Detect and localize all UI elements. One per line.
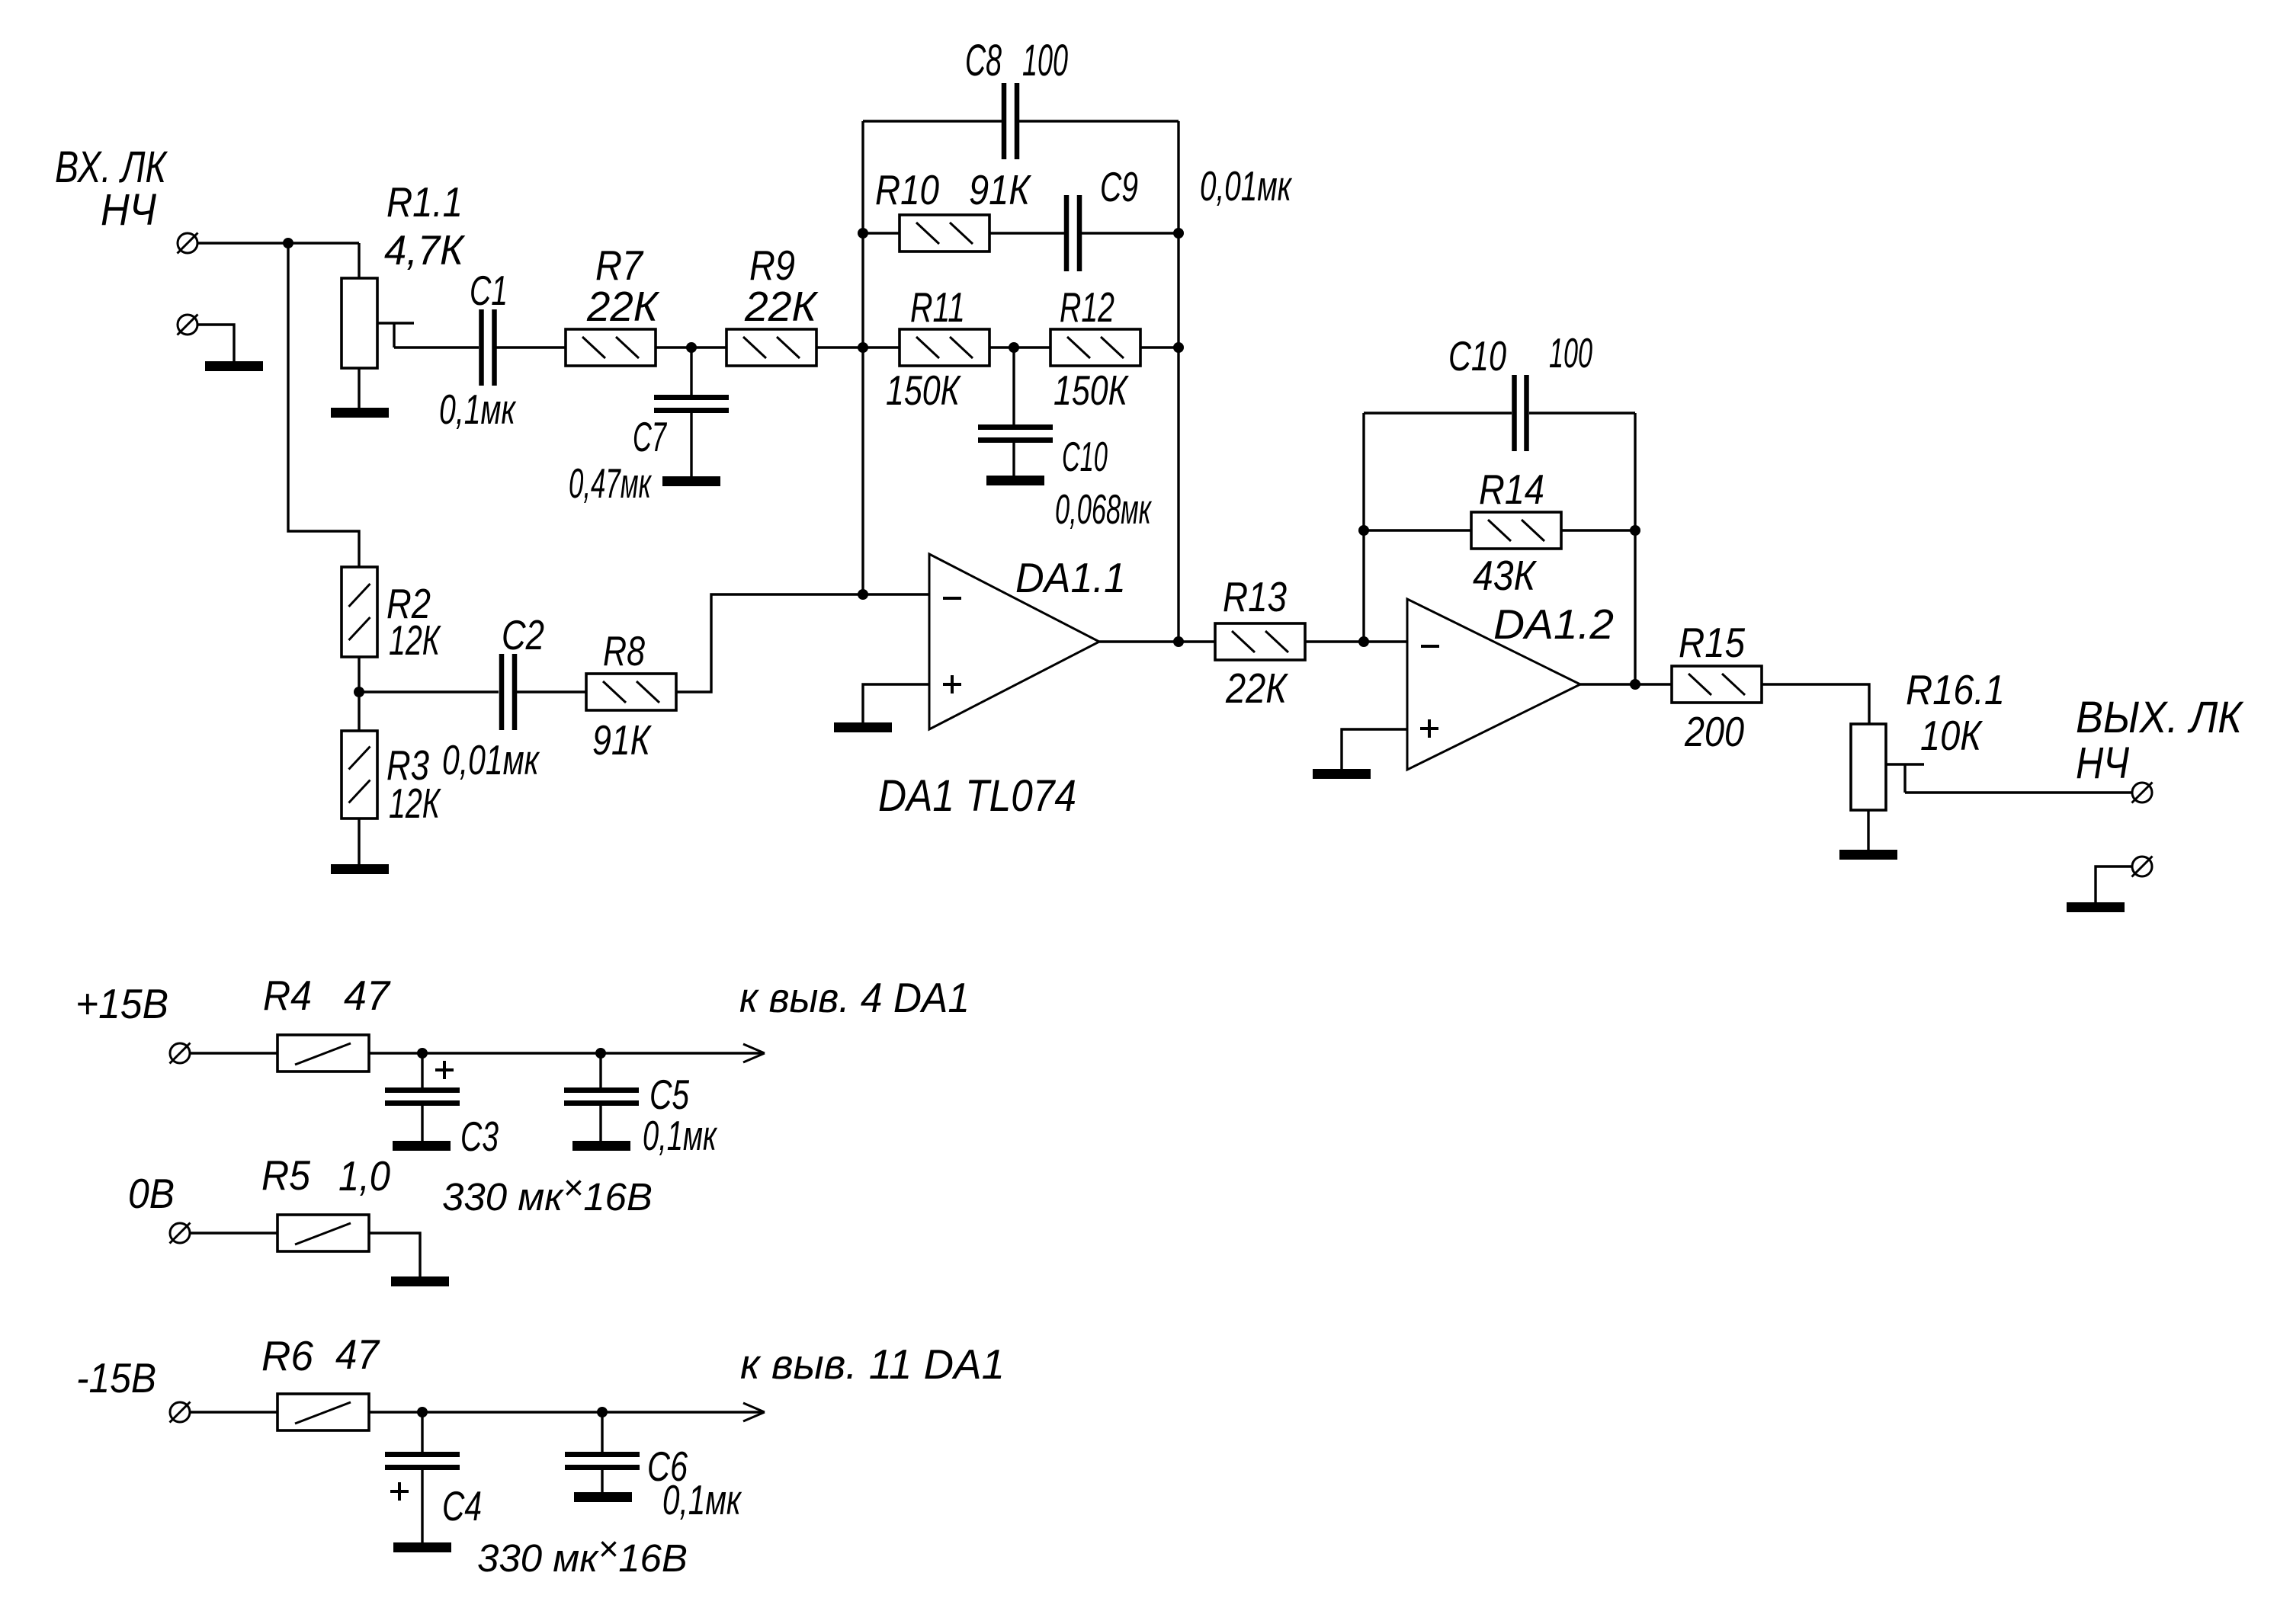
wire wiper to C1 — [394, 346, 479, 348]
svg-text:R6: R6 — [261, 1332, 313, 1379]
ground (C6) — [574, 1492, 632, 1502]
node DA1.2 inverting — [1358, 636, 1369, 647]
minus sign DA1.2 — [1421, 645, 1439, 648]
svg-text:0,01мк: 0,01мк — [442, 736, 540, 783]
svg-text:R10: R10 — [875, 166, 939, 213]
resistor R7 — [566, 329, 656, 366]
wire R15 to R16.1 — [1762, 684, 1869, 724]
resistor R13 — [1215, 623, 1305, 660]
wire to R14 — [1364, 529, 1471, 531]
ground (R16.1) — [1839, 850, 1897, 860]
capacitor C8 — [1004, 83, 1017, 159]
svg-text:C5: C5 — [649, 1071, 689, 1118]
wire down to C4 — [421, 1412, 423, 1452]
terminal +15V — [170, 1043, 191, 1064]
svg-text:0,1мк: 0,1мк — [662, 1476, 742, 1523]
node C7 tap — [686, 342, 697, 353]
wire down to C6 — [601, 1412, 603, 1452]
wire left feedback column — [861, 121, 864, 594]
wire R16.1 bottom — [1867, 810, 1869, 850]
wire node to C2 — [359, 690, 499, 693]
potentiometer R16.1 — [1851, 724, 1886, 810]
svg-text:0,1мк: 0,1мк — [643, 1112, 717, 1159]
wire wiper drop (R16.1) — [1903, 764, 1906, 793]
input terminal XS1 — [178, 233, 198, 254]
wire left column to R10 — [863, 232, 900, 234]
ground (R5) — [391, 1276, 449, 1286]
capacitor C10 (filter) — [978, 428, 1053, 440]
ground (input) — [205, 361, 263, 371]
svg-text:DA1.1: DA1.1 — [1015, 554, 1126, 601]
plus sign DA1.1 — [943, 675, 961, 693]
svg-text:0,47мк: 0,47мк — [569, 460, 652, 507]
ground (C7) — [662, 476, 720, 486]
wire DA1.1 noninverting to ground — [863, 684, 929, 722]
svg-text:R7: R7 — [595, 242, 644, 289]
node C4 tap — [417, 1407, 428, 1417]
svg-text:0В: 0В — [128, 1170, 175, 1217]
svg-text:R11: R11 — [910, 283, 965, 331]
wire feedback rail left — [1364, 412, 1512, 414]
node divider — [354, 687, 364, 697]
wire right feedback column — [1177, 121, 1179, 642]
ground (R3) — [331, 864, 389, 874]
wire C3 to ground — [421, 1106, 423, 1141]
wire R6 to arrow — [369, 1411, 763, 1413]
svg-text:C7: C7 — [633, 413, 668, 460]
output terminal — [2132, 783, 2153, 803]
capacitor C3 — [385, 1091, 460, 1103]
wire feedback left vertical — [1362, 413, 1365, 642]
resistor R12 — [1050, 329, 1140, 366]
node C9 right — [1173, 228, 1184, 239]
svg-text:C2: C2 — [502, 611, 544, 658]
node B (right feedback column) — [1173, 342, 1184, 353]
resistor R15 — [1672, 666, 1762, 703]
capacitor C9 — [1066, 195, 1079, 271]
output ground terminal — [2132, 857, 2153, 877]
node C5 tap — [595, 1048, 606, 1059]
ground (C5) — [572, 1141, 630, 1151]
wire to output terminal — [1905, 791, 2132, 793]
wire output ground — [2096, 866, 2132, 902]
wire C10 to ground — [1012, 443, 1015, 476]
capacitor C2 — [502, 654, 515, 730]
wire down to C10 — [1012, 348, 1015, 424]
plus sign DA1.2 — [1420, 719, 1438, 738]
svg-text:150К: 150К — [886, 367, 961, 414]
wire R1.1 bottom lead — [358, 368, 360, 408]
svg-text:C10: C10 — [1062, 433, 1108, 480]
svg-text:С8: С8 — [965, 36, 1002, 85]
node A (left feedback column) — [858, 342, 868, 353]
wire node to R3 — [358, 692, 360, 731]
capacitor C5 — [564, 1091, 639, 1103]
input ground terminal — [178, 315, 198, 335]
op-amp DA1.2 — [1407, 599, 1580, 770]
wire terminal2 to ground — [197, 325, 234, 361]
svg-text:R8: R8 — [603, 627, 645, 674]
wire C5 to ground — [599, 1106, 601, 1141]
capacitor C10 (feedback) — [1515, 375, 1527, 451]
node C3 tap — [417, 1048, 428, 1059]
wire R13 to DA1.2 — [1305, 640, 1407, 642]
plus sign C3 — [435, 1061, 454, 1079]
svg-text:R1.1: R1.1 — [386, 178, 463, 226]
wire R5 to ground — [369, 1233, 420, 1276]
svg-text:43К: 43К — [1473, 552, 1537, 599]
svg-text:C10: C10 — [1448, 332, 1506, 380]
svg-text:22К: 22К — [744, 283, 819, 330]
svg-text:22К: 22К — [586, 283, 660, 330]
resistor R2 — [342, 567, 377, 657]
terminal 0V — [170, 1223, 191, 1244]
wire feedback right vertical — [1634, 413, 1636, 684]
svg-text:R5: R5 — [261, 1152, 310, 1199]
node C6 tap — [597, 1407, 608, 1417]
wire C9 to right column — [1082, 232, 1179, 234]
wire feedback rail right — [1529, 412, 1635, 414]
capacitor C4 — [385, 1455, 460, 1468]
svg-text:C1: C1 — [470, 267, 508, 314]
resistor R11 — [900, 329, 989, 366]
wire input to junction — [197, 242, 288, 244]
wire C2 to R8 — [517, 690, 586, 693]
svg-text:C4: C4 — [442, 1482, 482, 1530]
wire C4 to ground — [421, 1470, 423, 1542]
svg-text:1,0: 1,0 — [338, 1152, 390, 1200]
wire input junction down-jog to R2 — [288, 243, 359, 567]
svg-text:ВЫХ. ЛК: ВЫХ. ЛК — [2076, 693, 2244, 742]
node input junction — [283, 238, 293, 248]
resistor R8 — [586, 674, 676, 710]
wire R4 to arrow — [369, 1052, 763, 1054]
wire +15V to R4 — [190, 1052, 277, 1054]
resistor R10 — [900, 215, 989, 251]
svg-text:R13: R13 — [1223, 573, 1287, 620]
svg-text:R14: R14 — [1479, 466, 1544, 513]
wire down to C3 — [421, 1053, 423, 1087]
wire DA1.1 output — [1099, 640, 1215, 642]
ground (output) — [2067, 902, 2125, 912]
resistor R3 — [342, 731, 377, 818]
svg-text:150К: 150К — [1054, 367, 1129, 414]
svg-text:0,068мк: 0,068мк — [1055, 485, 1152, 533]
wire junction to R1.1 corner — [288, 242, 359, 244]
wire -15V to R6 — [190, 1411, 277, 1413]
wire down to R1.1 top — [358, 243, 360, 278]
wire C7 to ground — [690, 413, 692, 476]
svg-text:R4: R4 — [263, 972, 312, 1019]
wire R2 to node — [358, 657, 360, 692]
svg-text:+15В: +15В — [75, 980, 168, 1027]
svg-text:0,01мк: 0,01мк — [1200, 162, 1292, 210]
svg-text:R9: R9 — [749, 242, 795, 289]
svg-text:330 мк×16В: 330 мк×16В — [477, 1529, 688, 1580]
node R14 right — [1630, 525, 1640, 536]
wire R16.1 wiper — [1886, 763, 1924, 765]
svg-text:47: 47 — [344, 972, 391, 1019]
svg-text:12К: 12К — [389, 617, 441, 664]
wire R10 to C9 — [989, 232, 1064, 234]
wire R12 to right column — [1140, 346, 1179, 348]
wire R9 to R11 — [816, 346, 900, 348]
svg-text:200: 200 — [1684, 708, 1744, 755]
resistor R9 — [726, 329, 816, 366]
svg-text:DA1.2: DA1.2 — [1493, 601, 1614, 648]
svg-text:10К: 10К — [1920, 712, 1983, 759]
arrow to pin 4 DA1 — [743, 1044, 765, 1062]
ground (DA1.2 +) — [1313, 769, 1371, 779]
minus sign DA1.1 — [943, 597, 961, 600]
svg-text:12К: 12К — [389, 780, 441, 827]
wire top rail left — [863, 120, 1002, 122]
capacitor C1 — [482, 309, 495, 386]
node R14 left — [1358, 525, 1369, 536]
capacitor C6 — [565, 1455, 640, 1468]
svg-text:к выв. 4 DA1: к выв. 4 DA1 — [739, 974, 970, 1021]
node C10 tap — [1009, 342, 1019, 353]
resistor R4 — [277, 1035, 369, 1071]
wire DA1.2 output — [1580, 683, 1672, 685]
ground (C3) — [393, 1141, 451, 1151]
svg-text:22К: 22К — [1225, 665, 1288, 712]
node R10 left — [858, 228, 868, 239]
svg-text:C3: C3 — [460, 1113, 499, 1160]
potentiometer R1.1 — [342, 278, 377, 368]
svg-text:НЧ: НЧ — [101, 185, 157, 235]
ground (C10) — [986, 476, 1044, 485]
svg-text:к выв. 11 DA1: к выв. 11 DA1 — [740, 1341, 1005, 1388]
svg-text:DA1 TL074: DA1 TL074 — [878, 771, 1076, 821]
plus sign C4 — [390, 1482, 409, 1501]
arrow to pin 11 DA1 — [743, 1403, 765, 1421]
wire wiper drop — [393, 323, 395, 348]
wire DA1.2 noninverting to ground — [1342, 729, 1407, 769]
wire R14 to right vertical — [1561, 529, 1635, 531]
svg-text:НЧ: НЧ — [2076, 738, 2130, 788]
svg-text:R15: R15 — [1679, 619, 1745, 666]
resistor R6 — [277, 1394, 369, 1430]
svg-text:C9: C9 — [1100, 163, 1138, 210]
wire 0V to R5 — [190, 1232, 277, 1234]
node inverting input — [858, 589, 868, 600]
svg-text:0,1мк: 0,1мк — [439, 386, 516, 433]
svg-text:100: 100 — [1549, 329, 1592, 376]
svg-text:47: 47 — [335, 1331, 380, 1378]
wire top rail right — [1019, 120, 1179, 122]
wire down to C7 — [690, 348, 692, 395]
svg-text:91К: 91К — [592, 716, 652, 764]
wire C6 to ground — [601, 1470, 603, 1492]
svg-text:100: 100 — [1022, 36, 1068, 85]
resistor R5 — [277, 1215, 369, 1251]
wire R11 to R12 — [989, 346, 1050, 348]
svg-text:R12: R12 — [1060, 283, 1114, 331]
svg-text:R16.1: R16.1 — [1906, 666, 2005, 713]
op-amp DA1.1 — [929, 554, 1099, 729]
svg-text:91К: 91К — [969, 166, 1031, 213]
ground (DA1.1 +) — [834, 722, 892, 732]
ground (C4) — [393, 1542, 451, 1552]
wire C1 to R7 — [496, 346, 566, 348]
resistor R14 — [1471, 512, 1561, 549]
svg-text:330 мк×16В: 330 мк×16В — [442, 1168, 653, 1219]
wire R7 to R9 — [656, 346, 726, 348]
node DA1.1 output — [1173, 636, 1184, 647]
ground (R1.1) — [331, 408, 389, 418]
wire R3 to ground — [358, 818, 360, 864]
wire down to C5 — [599, 1053, 601, 1087]
wire R8 to DA1.1 inverting input — [676, 594, 929, 692]
capacitor C7 — [654, 398, 729, 411]
node DA1.2 output — [1630, 679, 1640, 690]
wire R1.1 wiper — [377, 322, 414, 324]
terminal -15V — [170, 1402, 191, 1423]
svg-text:4,7К: 4,7К — [384, 226, 465, 274]
svg-text:-15В: -15В — [76, 1354, 156, 1401]
